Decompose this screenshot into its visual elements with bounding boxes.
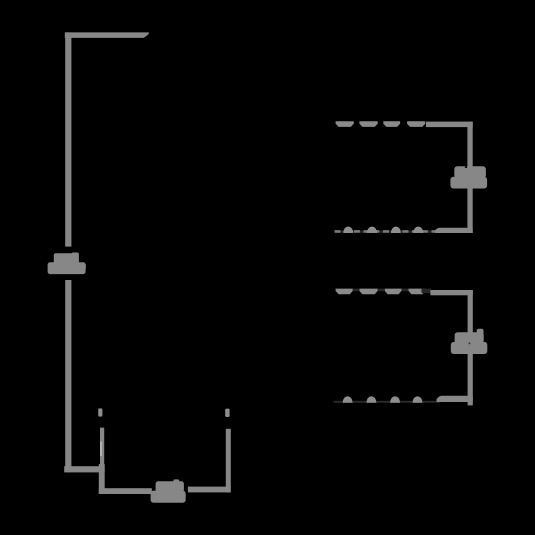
wire: connector J1 left vertical (upper thin part) [100, 428, 104, 468]
wire: R1 branch top horizontal solid [426, 122, 473, 128]
wire: connector J1 bottom right horizontal [188, 487, 231, 493]
wire: R1 branch bottom dash-dot line [335, 227, 438, 233]
wire: dashed net to R2 (top) [336, 289, 426, 295]
wire: R2 branch bottom thin line [334, 401, 440, 403]
pin stub: connector J1 left terminal dot [98, 408, 102, 416]
pin stub: connector J1 right terminal dot [225, 409, 229, 417]
component label J1 (illegible text blob) [151, 479, 186, 502]
junction highlight at node A [100, 442, 101, 457]
component label V1 (illegible text blob) [48, 253, 86, 275]
wire: R2 branch bottom right solid corner [437, 396, 473, 402]
component label R1 (illegible text blob) [450, 166, 487, 188]
wire: connector J1 right vertical [226, 429, 231, 493]
wire: R1 branch bottom right solid corner [435, 228, 473, 233]
wire: dashed net to R1 (top) [336, 121, 426, 127]
wire: connector J1 left vertical (lower part) [99, 464, 105, 494]
faint connector segments on R2 dashed net [353, 289, 431, 294]
wire: left branch vertical upper segment [65, 32, 71, 246]
wire: R1 branch right vertical [467, 122, 472, 233]
wire: connector J1 bottom left horizontal [99, 488, 152, 494]
wire: left branch bottom horizontal to node A [64, 466, 104, 472]
wire: R2 branch right vertical [468, 290, 473, 405]
wire: R2 branch top horizontal solid [430, 290, 472, 295]
wire: left branch vertical lower segment [65, 280, 71, 472]
terminal domes on R2 bottom line [343, 397, 422, 403]
component label R2 (illegible text blob) [451, 329, 488, 354]
wire: left branch top horizontal [65, 32, 149, 38]
